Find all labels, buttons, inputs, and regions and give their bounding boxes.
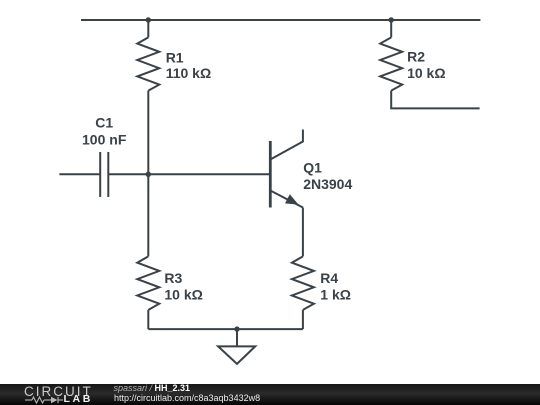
ground (218, 346, 255, 364)
wire: C1 to Q1 base (108, 173, 270, 175)
node: junction dot ground rail (234, 326, 239, 331)
CircuitLab logo wordmark LAB (64, 394, 93, 404)
wire: R2 top lead (390, 20, 392, 37)
CircuitLab logo wordmark CIRCUIT (24, 386, 93, 397)
node: junction dot top rail / R1 (146, 17, 151, 22)
svg-text:R1: R1 (166, 49, 184, 65)
node: junction dot top rail / R2 (389, 17, 394, 22)
svg-text:10 kΩ: 10 kΩ (407, 65, 445, 81)
svg-text:10 kΩ: 10 kΩ (164, 286, 202, 302)
node: junction dot base node (146, 172, 151, 177)
wire: R3 bottom lead (147, 310, 149, 329)
resistor R1 (137, 37, 159, 90)
footer url line (114, 394, 260, 403)
wire: R2 bottom lead to output stub (391, 91, 479, 109)
transistor Q1 (270, 130, 303, 208)
svg-text:R4: R4 (320, 270, 338, 286)
svg-text:Q1: Q1 (303, 159, 322, 175)
svg-text:100 nF: 100 nF (82, 132, 127, 148)
svg-text:1 kΩ: 1 kΩ (320, 286, 351, 302)
svg-text:R3: R3 (164, 270, 182, 286)
footer bar (0, 384, 540, 405)
resistor R4 (292, 256, 314, 310)
wire: input lead to C1 (59, 173, 100, 175)
wire: R1 top lead (147, 20, 149, 37)
svg-text:110 kΩ: 110 kΩ (166, 65, 212, 81)
resistor R2 (380, 37, 402, 90)
wire: bottom rail (148, 328, 303, 330)
svg-text:2N3904: 2N3904 (303, 176, 352, 192)
svg-text:R2: R2 (407, 48, 425, 64)
wire: R1 bottom to base node to R3 top (147, 91, 149, 257)
wire: ground stub (236, 329, 238, 346)
footer title line (114, 384, 191, 394)
svg-text:C1: C1 (95, 114, 113, 130)
wire: Q1 emitter to R4 (302, 208, 304, 257)
wire: R4 bottom lead (302, 310, 304, 329)
CircuitLab logo squiggle (resistor + diode) (25, 395, 65, 405)
capacitor C1 (100, 152, 108, 197)
wire: top supply rail (81, 19, 480, 21)
resistor R3 (137, 256, 159, 310)
